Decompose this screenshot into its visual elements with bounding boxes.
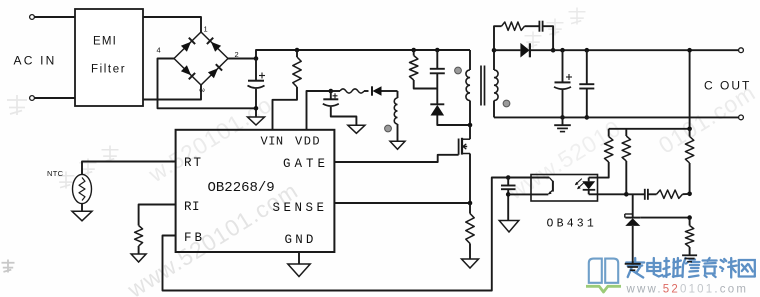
ground below NTC — [72, 211, 92, 221]
wire FB pin loop to optocoupler — [163, 178, 509, 291]
node aux polarity dot — [385, 125, 392, 132]
svg-text:FB: FB — [184, 231, 205, 245]
resistor R9 divider lower — [689, 218, 691, 226]
wire LED anode feed — [589, 163, 609, 178]
resistor R3 sense — [469, 203, 471, 214]
wire RT pin to NTC — [82, 162, 176, 175]
diode D1 bridge top-left — [181, 42, 191, 52]
ground below C2 — [348, 125, 365, 133]
svg-text:AC IN: AC IN — [14, 54, 57, 68]
ground earth output — [562, 117, 564, 125]
capacitor C3 clamp — [435, 48, 440, 53]
svg-text:3: 3 — [198, 88, 207, 92]
node comp junction — [687, 192, 692, 197]
wire collector into opto — [508, 177, 549, 179]
wire output positive rail — [553, 49, 739, 51]
resistor R5 to LED anode — [608, 129, 610, 137]
node FB junction at C4 — [506, 175, 511, 180]
ground below R4 — [131, 254, 146, 262]
diode LED opto — [588, 178, 590, 182]
capacitor C7 output electrolytic — [562, 50, 564, 82]
node secondary top junction — [492, 48, 497, 53]
resistor R8 compensation — [657, 190, 683, 198]
ground earth below U3 — [625, 263, 641, 265]
wire snubber loop — [494, 26, 502, 50]
diode D2 bridge top-right — [211, 42, 221, 52]
svg-text:RI: RI — [184, 200, 200, 214]
capacitor C2 VDD electrolytic — [330, 91, 332, 99]
wire U3 ref to divider — [640, 217, 689, 219]
resistor R2 clamp — [411, 48, 416, 53]
wire output sampling tee — [609, 128, 690, 130]
svg-text:C OUT: C OUT — [704, 79, 751, 93]
EMI filter block — [75, 9, 143, 106]
svg-text:VIN: VIN — [261, 135, 284, 149]
resistor R6 bias — [625, 129, 627, 136]
node output negative terminal — [739, 115, 744, 120]
wire EMI top output to bridge pin 1 — [143, 17, 201, 32]
node source junction — [468, 201, 473, 206]
diode D5 VDD rectifier — [373, 86, 382, 96]
wire output return rail — [494, 116, 739, 118]
wire RI pin to resistor — [139, 205, 176, 226]
node R6 cathode junction — [624, 192, 629, 197]
svg-text:Filter: Filter — [91, 64, 126, 76]
node secondary polarity dot — [503, 100, 510, 107]
capacitor C5 compensation — [626, 193, 644, 195]
ground below R3 — [462, 259, 479, 268]
shunt regulator U3 OB431 — [632, 194, 634, 217]
inductor L1 VDD feed — [331, 90, 340, 92]
node output positive terminal — [739, 48, 744, 53]
capacitor C8 output — [586, 50, 588, 83]
node junction bulk cap — [254, 56, 259, 61]
transformer T1 primary winding — [469, 50, 471, 70]
svg-text:VDD: VDD — [295, 135, 321, 149]
svg-text:RT: RT — [184, 156, 203, 170]
svg-text:GND: GND — [285, 233, 317, 247]
node VDD junction — [329, 89, 334, 94]
wire AC bottom terminal to EMI — [30, 96, 35, 101]
svg-text:OB2268/9: OB2268/9 — [208, 180, 275, 196]
logo site name blue characters — [626, 258, 644, 278]
svg-text:4: 4 — [157, 46, 161, 55]
wire emitter line — [508, 193, 548, 195]
node divider mid junction — [687, 215, 692, 220]
ground below aux winding — [390, 141, 405, 149]
op-amp U1 OB2268/9 controller box — [176, 130, 335, 252]
node junction negative rail at C1 — [254, 106, 259, 111]
transformer T1 core — [480, 66, 482, 106]
wire AC top terminal to EMI — [30, 15, 35, 20]
thermistor NTC — [73, 174, 92, 203]
transformer T1 auxiliary winding — [397, 91, 399, 98]
node snubber junction — [551, 48, 556, 53]
resistor R7 divider upper — [689, 129, 691, 137]
wire bridge pin 4 to negative rail — [158, 59, 257, 109]
ground earth below R9 — [682, 254, 697, 256]
node drain junction — [468, 123, 473, 128]
wire LED cathode out — [589, 193, 627, 195]
decorative — [122, 177, 302, 297]
svg-text:www.520101.com: www.520101.com — [626, 284, 749, 296]
diode D3 bridge bottom-left — [181, 65, 191, 75]
bridge rectifier BD1 diamond — [174, 32, 228, 85]
wire VDD pin riser — [307, 91, 331, 130]
wire GND pin — [298, 252, 300, 264]
node emitter junction — [506, 192, 511, 197]
wire EMI bottom output to bridge pin 3 — [143, 85, 201, 100]
node tee junction — [687, 127, 692, 132]
ground below GND pin — [288, 264, 310, 277]
svg-text:1: 1 — [204, 25, 208, 34]
resistor R1 startup — [295, 48, 300, 53]
ground below C4 — [499, 221, 519, 233]
wire bridge pin 2 to HV rail — [228, 50, 470, 59]
svg-text:OB431: OB431 — [547, 218, 598, 231]
capacitor C6 snubber — [538, 21, 540, 32]
svg-text:SENSE: SENSE — [273, 201, 328, 215]
ground primary below C1 — [248, 117, 265, 125]
LED light arrows — [576, 179, 582, 185]
svg-text:GATE: GATE — [283, 157, 329, 171]
logo book icon — [589, 259, 602, 283]
transformer T1 secondary winding — [493, 50, 495, 70]
svg-text:NTC: NTC — [47, 169, 64, 178]
capacitor C1 bulk electrolytic — [255, 59, 257, 81]
resistor R10 snubber — [502, 22, 525, 30]
svg-text:EMI: EMI — [93, 36, 117, 48]
diode D7 output rectifier — [494, 49, 520, 51]
optocoupler U2 box — [531, 175, 598, 202]
wire output tap vertical — [689, 50, 691, 129]
diode D4 bridge bottom-right — [208, 68, 218, 78]
capacitor C4 FB filter — [507, 178, 509, 186]
wire R1 to VIN pin — [273, 87, 298, 130]
resistor R4 on RI — [135, 226, 143, 247]
diode D6 clamp — [430, 103, 444, 105]
transistor Q1 MOSFET — [458, 139, 460, 155]
node primary polarity dot — [455, 67, 462, 74]
wire SENSE pin to source — [334, 202, 470, 204]
wire GATE pin to Q1 gate — [334, 155, 458, 162]
transistor opto phototransistor — [549, 178, 553, 182]
